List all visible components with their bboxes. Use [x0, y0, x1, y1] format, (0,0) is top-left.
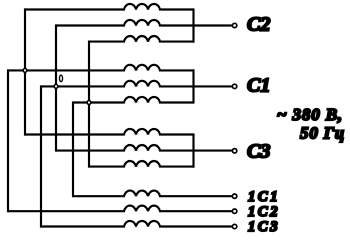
terminal C3 — [232, 149, 236, 153]
wire output lead C3 — [194, 150, 232, 152]
wire output lead C1 — [194, 85, 232, 87]
wire vertical tie C (x=89) — [88, 42, 90, 167]
svg-text:C2: C2 — [247, 14, 270, 36]
inductor L3b row2 of winding W3 — [56, 145, 194, 151]
wire vertical bus to 1C3 (x=41) — [40, 86, 42, 226]
inductor L6 line 1C3 — [41, 221, 232, 227]
wire right bar of winding W1 — [192, 10, 194, 42]
wire right bar of winding W3 — [192, 135, 194, 167]
svg-text:C1: C1 — [247, 75, 270, 97]
wire vertical bus to 1C2 (x=8) — [7, 70, 9, 211]
svg-text:C3: C3 — [247, 140, 270, 162]
inductor L3a row1 of winding W3 — [25, 129, 194, 135]
inductor L1a row1 of winding W1 — [25, 4, 194, 10]
svg-text:50 Гц: 50 Гц — [300, 123, 345, 142]
inductor L4 line 1C1 — [73, 191, 232, 197]
wire vertical tie B / neutral 0 (x=56) — [55, 26, 57, 151]
terminal C2 — [232, 23, 236, 27]
inductor L2c row3 of winding W2 — [73, 97, 194, 103]
terminal 1C1 — [232, 194, 236, 198]
wire vertical tie A (x=25) — [24, 10, 26, 135]
junction node on W2 row3 (tie C) — [87, 101, 91, 105]
terminal 1C2 — [232, 209, 236, 213]
terminal 1C3 — [232, 224, 236, 228]
node label 0 — [59, 75, 62, 82]
svg-text:~ 380 В,: ~ 380 В, — [277, 105, 343, 124]
junction node on W2 row1 (tie A) — [23, 69, 27, 73]
svg-text:1C2: 1C2 — [248, 204, 280, 220]
inductor L1b row2 of winding W1 — [56, 20, 194, 26]
inductor L2a row1 of winding W2 — [8, 65, 194, 71]
wire output lead C2 — [194, 24, 232, 26]
inductor L3c row3 of winding W3 — [89, 161, 194, 167]
wire vertical bus to 1C1 (x=73) — [72, 103, 74, 197]
wire right bar of winding W2 — [192, 70, 194, 102]
inductor L1c row3 of winding W1 — [89, 36, 194, 42]
junction node 0 (neutral star point) on W2 row2 — [54, 85, 58, 89]
svg-text:1C3: 1C3 — [248, 219, 280, 235]
inductor L2b row2 of winding W2 — [41, 81, 194, 87]
terminal C1 — [232, 84, 236, 88]
svg-text:1C1: 1C1 — [248, 189, 280, 205]
inductor L5 line 1C2 — [8, 206, 232, 212]
